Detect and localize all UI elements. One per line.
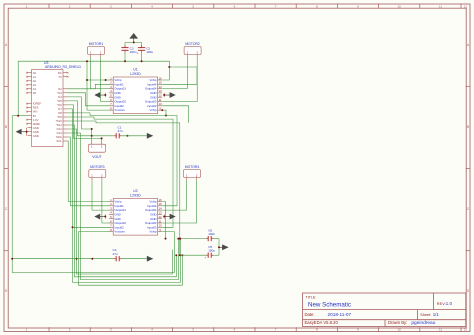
svg-text:A5: A5 [33,91,37,95]
svg-text:REV:: REV: [437,301,446,306]
svg-text:10: 10 [398,4,402,8]
svg-text:SCL: SCL [56,139,62,143]
svg-text:MOTOR4: MOTOR4 [185,165,200,169]
svg-text:Vchip: Vchip [150,108,157,112]
svg-text:+: + [204,256,206,260]
svg-text:11: 11 [439,328,442,332]
svg-text:100n: 100n [130,50,137,54]
svg-text:GND: GND [33,134,39,138]
svg-text:VOUT: VOUT [92,155,101,159]
svg-text:10: 10 [398,328,402,332]
svg-text:EasyEDA V5.8.20: EasyEDA V5.8.20 [305,320,339,325]
svg-text:100u: 100u [146,50,153,54]
svg-text:100n: 100n [208,232,215,236]
svg-text:TX: TX [58,75,62,79]
svg-text:New Schematic: New Schematic [308,302,351,309]
svg-text:Vmotors: Vmotors [114,230,125,234]
svg-text:1/1: 1/1 [433,312,440,317]
svg-text:47u: 47u [113,252,118,256]
svg-text:L293D: L293D [130,72,141,76]
svg-text:MOTOR2: MOTOR2 [185,42,200,46]
svg-text:ARDUINO_R3_SHIELD: ARDUINO_R3_SHIELD [45,65,82,69]
svg-text:11: 11 [439,4,442,8]
svg-text:Drawn By:: Drawn By: [388,320,407,325]
svg-text:12: 12 [464,4,468,8]
svg-text:2018-11-07: 2018-11-07 [328,312,352,317]
svg-text:MOTOR3: MOTOR3 [90,165,105,169]
svg-text:B: B [5,125,7,129]
svg-text:47u: 47u [118,129,123,133]
svg-text:L293D: L293D [130,194,141,198]
svg-text:100u: 100u [208,249,215,253]
svg-text:Date:: Date: [305,312,315,317]
svg-text:+: + [137,51,139,55]
svg-text:12: 12 [464,328,468,332]
svg-text:Vchip: Vchip [150,230,157,234]
svg-text:TITLE:: TITLE: [306,295,317,299]
svg-text:B: B [467,125,469,129]
svg-text:MOTOR1: MOTOR1 [89,42,104,46]
svg-text:pgeindreau: pgeindreau [411,320,435,326]
svg-text:Vmotors: Vmotors [114,108,125,112]
svg-text:1.0: 1.0 [446,301,453,306]
svg-text:Sheet:: Sheet: [420,312,431,317]
